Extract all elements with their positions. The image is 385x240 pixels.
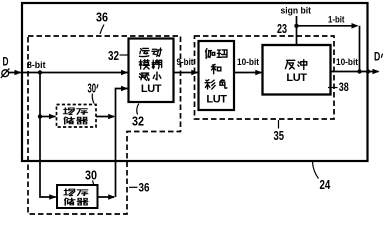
wire to field memory 30' [40,116,56,118]
svg-text:LUT: LUT [141,83,162,95]
junction node on input wire [38,70,42,74]
field memory 30 [57,185,98,208]
pointer to label 30 [93,181,94,186]
kickback LUT 23 [263,45,331,95]
wire down to field memory 30 [40,73,56,198]
output wire D' [331,71,379,73]
arrowhead into LUT 32 [121,70,128,76]
field memory 30' (dashed block) [57,105,97,128]
svg-text:10-bit: 10-bit [237,57,260,68]
arrowhead into kickback LUT [255,70,262,76]
text motion-blur-reduction LUT [139,48,162,95]
wire from 30 output [98,196,115,198]
svg-text:36: 36 [139,180,150,194]
riser wire to LUT 32 input [116,89,128,198]
svg-text:1-bit: 1-bit [328,14,345,25]
arrowhead at riser junction (30 output) [108,194,115,200]
arrowhead at output D' [373,69,380,75]
text gamma-and-color LUT [205,49,227,106]
pointer to label 32 (bottom) [137,104,139,115]
svg-text:36: 36 [96,11,108,25]
svg-text:32: 32 [108,49,119,63]
arrowhead at outer block boundary [15,70,22,76]
svg-text:30: 30 [85,168,97,182]
dashed region 36 [28,36,181,214]
svg-text:LUT: LUT [206,94,227,106]
svg-text:24: 24 [320,178,331,192]
svg-text:8-bit: 8-bit [27,60,46,71]
svg-text:9-bit: 9-bit [177,57,195,68]
arrowhead at riser junction (30' output) [108,114,115,120]
dashed block 35 [195,36,335,119]
svg-text:32: 32 [132,114,144,128]
wire 1-bit [297,26,360,72]
wire from 30' output [96,116,114,118]
label 30' [88,82,99,96]
pointer to label 38 [328,87,338,89]
svg-text:30: 30 [88,82,97,96]
sign bit wire [296,16,298,45]
input terminal symbol [1,68,10,78]
pointer to label 24 [313,162,319,179]
pointer to label 30' [92,94,94,104]
arrowhead into gamma-and-color LUT [191,70,198,76]
arrowhead into field memory 30' [49,114,56,120]
svg-text:D: D [374,51,380,63]
pointer to label 36 (bottom) [129,186,138,188]
arrowhead into LUT 32 (memory input) [121,86,128,92]
svg-text:LUT: LUT [286,72,307,84]
svg-text:38: 38 [339,82,349,94]
arrowhead on 1-bit wire [352,23,359,29]
pointer to label 35 [278,120,280,129]
junction node sign bit / 1-bit [294,24,298,28]
junction node at outer block boundary [366,69,370,73]
gamma and color LUT [199,41,235,110]
pointer to label 36 (top) [100,25,104,35]
junction node branch to field memory 30' [38,114,42,118]
svg-text:10-bit: 10-bit [336,57,359,68]
outer block 24 [22,3,368,161]
svg-text:35: 35 [274,129,285,143]
pointer to label 32 (top) [120,54,129,56]
motion blur reduction LUT 32 [129,39,174,103]
arrowhead into field memory 30 [49,194,56,200]
terminal label D' [374,51,383,63]
wire 9-bit [174,72,199,74]
svg-text:sign bit: sign bit [281,6,312,17]
svg-text:D: D [3,57,9,69]
wire 10-bit [234,72,262,74]
text kickback LUT [285,60,307,84]
svg-text:23: 23 [277,22,287,36]
junction node 1-bit joins output [357,69,361,73]
wire D input [9,72,128,74]
